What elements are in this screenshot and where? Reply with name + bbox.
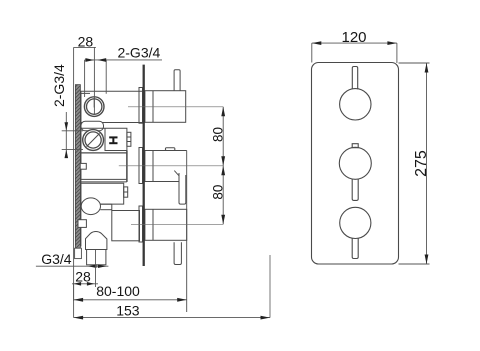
svg-text:120: 120 xyxy=(341,29,366,46)
svg-text:80-100: 80-100 xyxy=(96,283,140,299)
svg-text:28: 28 xyxy=(78,34,94,50)
svg-text:153: 153 xyxy=(116,302,140,318)
svg-text:2-G3/4: 2-G3/4 xyxy=(117,45,160,61)
svg-text:275: 275 xyxy=(413,150,430,177)
svg-text:80: 80 xyxy=(211,127,226,142)
svg-text:28: 28 xyxy=(75,269,91,285)
svg-text:2-G3/4: 2-G3/4 xyxy=(51,64,67,107)
svg-text:G3/4: G3/4 xyxy=(41,251,72,267)
svg-text:80: 80 xyxy=(211,185,226,200)
